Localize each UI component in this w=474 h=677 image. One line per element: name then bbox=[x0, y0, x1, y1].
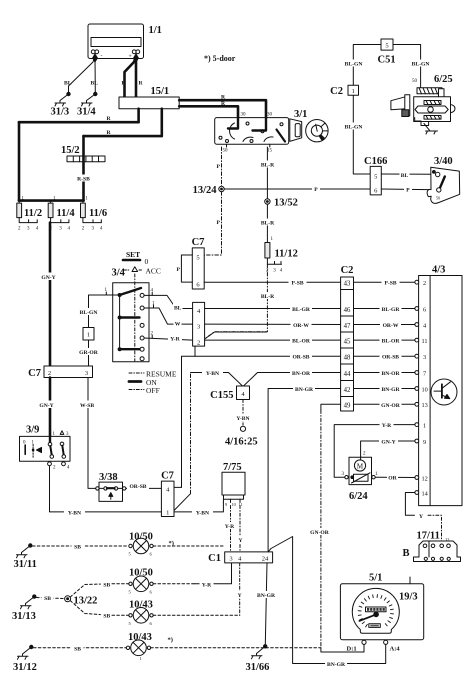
off-page symbol bbox=[240, 426, 245, 431]
pin tick 1 bbox=[153, 305, 155, 308]
wire P-SB from C7 pin 6 to C2 pin 43 bbox=[204, 281, 340, 283]
wire stub above 19/3 bbox=[409, 577, 411, 584]
wire label P-SB bbox=[289, 279, 307, 287]
svg-text:C2: C2 bbox=[341, 265, 354, 276]
svg-text:OR-W: OR-W bbox=[383, 323, 399, 329]
pin 4 tick bbox=[151, 292, 153, 295]
legend SET / 0 bbox=[123, 250, 149, 266]
wire OR-SB C2 48 to 4/3 pin 3 bbox=[354, 355, 415, 357]
svg-text:ACC: ACC bbox=[146, 267, 161, 276]
wire label OR-SB bbox=[290, 353, 312, 361]
wire P from C166 pin 6 to switch 3/40 bbox=[381, 188, 436, 191]
svg-text:SET: SET bbox=[126, 250, 140, 259]
wire label SB bbox=[101, 612, 113, 620]
wire battery minus to ground 31/4 (BL) bbox=[94, 56, 96, 93]
svg-text:BL-R: BL-R bbox=[261, 221, 275, 227]
wire dashed node down to lamp row 3 bbox=[70, 601, 104, 615]
svg-text:4/3: 4/3 bbox=[432, 265, 445, 276]
svg-text:10: 10 bbox=[422, 386, 428, 393]
svg-text:+: + bbox=[129, 54, 132, 60]
svg-text:0: 0 bbox=[145, 257, 149, 266]
svg-text:OR-SB: OR-SB bbox=[382, 355, 399, 361]
svg-text:19/3: 19/3 bbox=[399, 592, 418, 603]
svg-text:1: 1 bbox=[166, 509, 169, 516]
wire fuse supply bus bbox=[19, 199, 84, 202]
wire label W bbox=[174, 320, 182, 328]
wire dashed lamp row 2 right bbox=[153, 583, 194, 585]
svg-text:BL-OR: BL-OR bbox=[382, 339, 401, 345]
connector C1 bbox=[225, 552, 273, 563]
svg-text:BN-OR: BN-OR bbox=[381, 371, 400, 377]
wire P from node 13/24 right to C166 pin 6 bbox=[224, 188, 370, 190]
svg-text:31/3: 31/3 bbox=[51, 107, 70, 118]
svg-text:BL-GN: BL-GN bbox=[412, 62, 430, 68]
svg-text:9: 9 bbox=[225, 502, 227, 507]
fuse box 15/1 bbox=[119, 97, 179, 109]
wire label OR-SB bbox=[380, 353, 402, 361]
svg-text:14: 14 bbox=[422, 490, 429, 497]
wire dashed to lamp 10/43 bbox=[112, 614, 129, 616]
6/24 pin 1 bbox=[372, 476, 375, 479]
svg-text:2: 2 bbox=[197, 339, 200, 346]
4/3 pin 12 bbox=[415, 476, 419, 480]
wire 15/1 to 15/2 drop (R) lower bbox=[84, 109, 162, 136]
wire Y dashed continuation bbox=[428, 515, 442, 541]
svg-text:2: 2 bbox=[423, 280, 426, 287]
wire BL-OR from connector pin 2 to C2 pin 45 bbox=[205, 339, 341, 341]
svg-text:43: 43 bbox=[344, 281, 351, 288]
svg-text:50: 50 bbox=[436, 196, 440, 201]
wire BL-R dashed from fuse 11/12 to cruise switch wire bbox=[205, 264, 268, 339]
wire Y dashed from C1 pin 4 down to row 3 bbox=[239, 563, 241, 615]
wire Y-R to C1 pin 3 bbox=[194, 563, 232, 584]
wire R-SB through 15/2 down to fuse bus bbox=[82, 136, 85, 201]
svg-text:C51: C51 bbox=[378, 55, 396, 66]
wire label OR-W bbox=[380, 321, 401, 329]
svg-text:5: 5 bbox=[374, 174, 377, 181]
wire W-SB from C7 pin 3 down to 3/38 bbox=[88, 378, 96, 489]
wire C51 left branch to connector C2 pin 1 (BL-GN) bbox=[353, 45, 381, 86]
svg-text:GN-OR: GN-OR bbox=[310, 530, 330, 536]
svg-text:3: 3 bbox=[229, 555, 232, 562]
wire label BL-OR bbox=[290, 337, 312, 345]
svg-text:BN-OR: BN-OR bbox=[292, 371, 311, 377]
wire P dashed from node 13/24 down to C7 pin 5 bbox=[204, 192, 221, 255]
svg-text:30: 30 bbox=[241, 113, 247, 118]
wire GN-OR C2 49 to 4/3 pin 13 bbox=[354, 403, 415, 405]
wire Y from 4/3 pin 14 to relay 17/11 bbox=[405, 493, 414, 516]
svg-text:SB: SB bbox=[74, 646, 81, 652]
wire BN-GR from C1 pin 24 riser to C2 pin 42 bbox=[268, 389, 341, 552]
fuse 11/12 bbox=[265, 243, 270, 259]
wire GN-Y from 4/3 pin 9 to pump 6/24 pin 2 bbox=[361, 441, 415, 456]
svg-text:31/12: 31/12 bbox=[13, 662, 37, 673]
svg-text:44: 44 bbox=[344, 371, 351, 378]
legend ACC bbox=[124, 267, 161, 276]
wire label OR-SB bbox=[127, 482, 149, 490]
svg-text:17/11: 17/11 bbox=[417, 531, 440, 542]
wire label GN-Y bbox=[39, 273, 58, 282]
wire Y-R from 4/3 pin 1 to pump 6/24 pin 3 bbox=[334, 425, 415, 478]
svg-text:13/22: 13/22 bbox=[74, 596, 98, 607]
wire GN-OR from C2 pin 49 down to instrument bbox=[321, 404, 341, 410]
svg-text:7: 7 bbox=[423, 370, 426, 377]
svg-text:BL-GR: BL-GR bbox=[382, 307, 401, 313]
wire BN-GR C2 42 to 4/3 pin 10 bbox=[354, 388, 415, 390]
svg-text:13/52: 13/52 bbox=[274, 198, 298, 209]
4/3 pin 1 bbox=[415, 423, 419, 427]
svg-text:P-SB: P-SB bbox=[291, 281, 303, 287]
svg-text:50: 50 bbox=[223, 149, 229, 154]
wire label SB bbox=[72, 543, 84, 551]
ground 31/4 bbox=[82, 92, 98, 106]
wire 15/1 to ignition 3/1 terminal 30 lower (R) bbox=[179, 106, 238, 117]
wire C1 pin 24 down to ground 31/66 bbox=[265, 563, 267, 645]
fuse 11/6 output stub pins 2 3 4 bbox=[82, 218, 103, 232]
svg-text:BN-GR: BN-GR bbox=[295, 387, 314, 393]
cruise control module 4/3 bbox=[419, 276, 462, 506]
wire BL from C166 pin 5 to switch 3/40 bbox=[381, 173, 435, 175]
4/3 pin 3 bbox=[415, 354, 419, 358]
pin 4 bottom circle bbox=[62, 462, 66, 466]
svg-text:15/2: 15/2 bbox=[61, 145, 80, 156]
svg-text:3: 3 bbox=[197, 324, 200, 331]
wire label Y-R bbox=[200, 580, 214, 588]
wire dashed to lamp 10/50 row 2 bbox=[112, 583, 129, 585]
node 13/24 bbox=[219, 186, 224, 191]
wire label BN-GR bbox=[380, 385, 402, 393]
wire C155 to C2 pin 44 (BN-OR) bbox=[244, 373, 341, 387]
wire label BL-GN bbox=[342, 123, 365, 131]
wire jumper C7 pin 5 to pin 6 (P) bbox=[181, 255, 192, 282]
svg-text:11/2: 11/2 bbox=[24, 208, 42, 219]
svg-text:W: W bbox=[175, 321, 181, 327]
svg-text:12: 12 bbox=[422, 475, 428, 482]
svg-text:B: B bbox=[402, 548, 409, 559]
wire C51 right branch to starter 6/25 (BL-GN) bbox=[393, 45, 421, 88]
wire Y-BN dashed riser bbox=[190, 373, 192, 494]
pin 50 tick bbox=[226, 144, 228, 147]
svg-text:Y-BN: Y-BN bbox=[196, 510, 209, 516]
pin 1 tick bbox=[105, 292, 107, 295]
ground 31/3 bbox=[55, 92, 70, 106]
svg-text:C7: C7 bbox=[28, 368, 41, 379]
wire label Y bbox=[236, 591, 244, 599]
pin 2 bottom circle bbox=[48, 462, 52, 466]
svg-text:13/24: 13/24 bbox=[193, 185, 218, 196]
wire dashed lamp row 3 to C1 pin 4 drop bbox=[153, 614, 240, 616]
svg-text:11/6: 11/6 bbox=[89, 208, 107, 219]
wire label Y-BN bbox=[233, 414, 254, 422]
svg-text:13: 13 bbox=[422, 402, 428, 409]
ignition key barrel bbox=[290, 119, 328, 142]
ground 31/11 bbox=[17, 544, 32, 558]
svg-text:Y-R: Y-R bbox=[382, 423, 392, 429]
clutch switch 3/38 bbox=[96, 482, 126, 501]
wire label P-SB bbox=[382, 279, 400, 287]
svg-text:GN-Y: GN-Y bbox=[381, 440, 395, 446]
svg-text:5: 5 bbox=[385, 43, 388, 50]
wire left vertical R to fuse bus bbox=[18, 122, 21, 200]
svg-text:BL: BL bbox=[91, 81, 99, 87]
wire OR-W from connector pin 3 to C2 pin 47 bbox=[205, 323, 341, 325]
4/3 pin 11 bbox=[415, 338, 419, 342]
svg-text:R-SB: R-SB bbox=[77, 177, 90, 183]
svg-text:10: 10 bbox=[232, 502, 236, 507]
svg-text:31/66: 31/66 bbox=[246, 662, 270, 673]
svg-text:BL: BL bbox=[401, 173, 409, 179]
svg-text:OFF: OFF bbox=[146, 386, 160, 395]
svg-text:BL-GN: BL-GN bbox=[80, 310, 98, 316]
wire OR-SB from C7 pin 4 riser to C2 pin 48 bbox=[182, 356, 341, 487]
lamp 10/50 (row 2) bbox=[129, 576, 154, 595]
legend RESUME bbox=[129, 370, 177, 379]
4/3 pin 14 bbox=[415, 491, 419, 495]
svg-text:W-SB: W-SB bbox=[80, 403, 94, 409]
fuse 11/4 bbox=[48, 203, 53, 218]
fuse 11/2 output stub pins 2 3 4 bbox=[18, 218, 39, 232]
wire SB dashed from 31/13 to node 13/22 bbox=[37, 598, 65, 599]
svg-text:1: 1 bbox=[140, 656, 142, 661]
legend ON bbox=[129, 378, 157, 387]
wire label Y bbox=[237, 536, 245, 544]
fuse 11/4 pin 1 bbox=[50, 201, 52, 204]
connector at 3/4 (pins 4,3,2) bbox=[193, 302, 205, 346]
svg-text:11: 11 bbox=[422, 338, 428, 345]
wire BL-R from ignition pin 15 down to node 13/52 bbox=[266, 147, 268, 199]
wire diagonal from C7 pin 1 up to Y-BN dashed riser bbox=[174, 494, 191, 511]
svg-text:BL-GN: BL-GN bbox=[345, 62, 363, 68]
svg-text:1: 1 bbox=[423, 422, 426, 429]
wire 3/4 pin 1b to connector pin 3 (W) bbox=[144, 308, 193, 324]
4/3 pin 7 bbox=[415, 371, 419, 375]
svg-text:P: P bbox=[177, 267, 181, 273]
svg-text:P-SB: P-SB bbox=[384, 281, 396, 287]
brake switch 3/40 bbox=[427, 167, 460, 203]
svg-text:BL-GN: BL-GN bbox=[345, 125, 363, 131]
svg-text:1/1: 1/1 bbox=[149, 25, 162, 36]
svg-text:GN-Y: GN-Y bbox=[39, 403, 53, 409]
fuse 11/2 pin 1 bbox=[18, 201, 20, 204]
4/3 pin 10 bbox=[415, 387, 419, 391]
battery 1/1 bbox=[88, 24, 144, 62]
lamp 10/50 (row 1) bbox=[129, 538, 154, 556]
svg-text:3/38: 3/38 bbox=[99, 472, 118, 483]
wire P-SB C2 43 to 4/3 pin 2 bbox=[354, 281, 415, 283]
4/3 pin 2 bbox=[415, 280, 419, 284]
wire GR-OR from box 1 to C7 pin 3 bbox=[88, 340, 90, 366]
wire connector pin 1 tick to OR-SB line bbox=[194, 346, 196, 356]
wire BN-GR label bbox=[293, 385, 315, 393]
svg-text:C2: C2 bbox=[330, 86, 343, 97]
pin 15 tick bbox=[269, 144, 271, 147]
svg-text:6/25: 6/25 bbox=[434, 74, 453, 85]
svg-text:P: P bbox=[217, 164, 221, 170]
svg-text:*) 5-door: *) 5-door bbox=[204, 54, 236, 63]
connector C2 strip bbox=[341, 277, 354, 411]
connector C2 (pin 1) bbox=[348, 85, 359, 95]
pin 2 tick bbox=[151, 335, 153, 338]
wire battery minus to ground 31/3 (BL) bbox=[69, 56, 96, 93]
connector C7 (pins 4,1) bbox=[161, 481, 174, 516]
svg-text:SB: SB bbox=[103, 613, 110, 619]
svg-text:1: 1 bbox=[352, 88, 355, 95]
4/3 pin 9 bbox=[415, 439, 419, 443]
svg-text:50: 50 bbox=[412, 79, 418, 84]
wire label Y-BN bbox=[192, 508, 213, 516]
svg-text:P: P bbox=[217, 220, 221, 226]
svg-text:Y-BN: Y-BN bbox=[68, 510, 81, 516]
wire BL-OR C2 45 to 4/3 pin 11 bbox=[354, 339, 415, 341]
svg-text:5/1: 5/1 bbox=[369, 573, 382, 584]
wire label BL-GR bbox=[380, 305, 402, 313]
svg-text:*): *) bbox=[168, 637, 173, 644]
connector C155 bbox=[237, 386, 250, 400]
wire OR-W C2 47 to 4/3 pin 4 bbox=[354, 324, 415, 326]
svg-text:BN-GR: BN-GR bbox=[381, 387, 400, 393]
svg-text:BL-GR: BL-GR bbox=[292, 307, 311, 313]
svg-text:BN-GR: BN-GR bbox=[257, 593, 276, 599]
svg-text:46: 46 bbox=[344, 307, 351, 314]
wire dashed lamp row 4 to GN-OR junction bbox=[151, 647, 321, 649]
svg-text:3: 3 bbox=[85, 370, 88, 377]
ground 31/12 bbox=[18, 645, 34, 659]
wire 15/1 to left bus (R) upper bbox=[19, 109, 139, 123]
wire label BN-GR bbox=[325, 660, 347, 668]
wire label GN-Y bbox=[37, 401, 56, 410]
svg-text:7/75: 7/75 bbox=[223, 462, 242, 473]
wire Y-BN from 3/9 pin 2 to C7 pin 1 bbox=[50, 466, 162, 512]
wire GN-Y from C7 pin 2 down to stop switch 3/9 bbox=[49, 378, 52, 437]
svg-text:OR-SB: OR-SB bbox=[129, 484, 146, 490]
lamp 10/43 (row 4) bbox=[126, 640, 150, 661]
svg-text:A:4: A:4 bbox=[390, 646, 401, 653]
svg-text:SB: SB bbox=[44, 596, 51, 602]
svg-text:C7: C7 bbox=[161, 471, 174, 482]
svg-text:GR-OR: GR-OR bbox=[79, 350, 99, 356]
wire label BL-R bbox=[259, 219, 277, 227]
wire label Y-BN bbox=[202, 369, 223, 377]
svg-text:Y-BN: Y-BN bbox=[236, 416, 249, 422]
wire Y dashed from 7/75 to C1 pin 4 bbox=[239, 506, 241, 552]
svg-text:BL-R: BL-R bbox=[261, 294, 275, 300]
wire connector pin 2 diagonal up to BL-R join bbox=[205, 332, 267, 339]
wire 3/4 pin 2 to connector pin 2 (Y-R) bbox=[144, 338, 193, 340]
wire C1 pin 24 diagonal to instrument feed bbox=[268, 537, 386, 664]
pin 3 top triangle bbox=[60, 431, 64, 435]
wire Y-BN to connector C155 bbox=[191, 373, 243, 387]
svg-text:Y: Y bbox=[419, 514, 423, 520]
wire battery plus to 15/1 (R, right) bbox=[135, 56, 138, 97]
wire BL-R from node 13/52 to fuse 11/12 bbox=[266, 204, 268, 242]
svg-text:2: 2 bbox=[48, 370, 51, 377]
wire label R-SB bbox=[75, 175, 92, 183]
wire label Y-R bbox=[168, 335, 182, 343]
svg-text:48: 48 bbox=[344, 355, 351, 362]
wire label BL-R bbox=[259, 161, 277, 169]
wire GN-Y from fuse 11/4 down to C7 pin 2 bbox=[49, 223, 52, 366]
wire SB dashed from 31/11 to lamp 10/50 bbox=[33, 545, 129, 547]
svg-text:C166: C166 bbox=[364, 156, 387, 167]
wire label BL-GN bbox=[409, 60, 432, 68]
wire label GN-Y bbox=[379, 438, 398, 446]
svg-text:BL-OR: BL-OR bbox=[292, 339, 311, 345]
wire label SB bbox=[101, 581, 113, 589]
connector C51 bbox=[381, 39, 393, 50]
svg-text:OR-SB: OR-SB bbox=[292, 355, 309, 361]
svg-text:11/12: 11/12 bbox=[275, 249, 298, 260]
svg-text:M: M bbox=[357, 462, 364, 470]
svg-text:3: 3 bbox=[423, 354, 426, 361]
wire label Y-R bbox=[380, 421, 394, 429]
wire label P bbox=[404, 186, 412, 194]
svg-text:42: 42 bbox=[344, 387, 351, 394]
wire BL-GN from C2 pin 1 down to C166 pin 5 bbox=[353, 95, 370, 174]
svg-text:9: 9 bbox=[423, 439, 426, 446]
svg-text:D:1: D:1 bbox=[347, 646, 357, 653]
fuse 11/6 pin 1 bbox=[82, 201, 84, 204]
wire label BL-OR bbox=[380, 337, 402, 345]
svg-text:Y: Y bbox=[238, 593, 242, 599]
svg-text:3/40: 3/40 bbox=[434, 156, 453, 167]
svg-text:45: 45 bbox=[344, 338, 351, 345]
svg-text:1: 1 bbox=[87, 332, 90, 339]
svg-text:3/9: 3/9 bbox=[26, 425, 39, 436]
svg-text:11: 11 bbox=[239, 502, 243, 507]
svg-text:BL-R: BL-R bbox=[261, 163, 275, 169]
wire label BN-GR bbox=[255, 591, 277, 599]
wire label Y-R bbox=[223, 522, 237, 530]
svg-text:6/24: 6/24 bbox=[349, 491, 368, 502]
connector box 1 bbox=[83, 328, 94, 341]
svg-text:15/1: 15/1 bbox=[151, 86, 170, 97]
svg-text:24: 24 bbox=[262, 555, 269, 562]
vacuum regulator 7/75 bbox=[222, 472, 245, 507]
svg-text:Y-R: Y-R bbox=[202, 582, 212, 588]
wire 15/1 to ignition 3/1 terminal 30 upper (R) bbox=[179, 100, 266, 117]
wire label BL-GR bbox=[290, 305, 312, 313]
connector C7 (pins 2,3) bbox=[44, 366, 93, 378]
svg-text:C1: C1 bbox=[208, 553, 221, 564]
svg-text:Y: Y bbox=[238, 538, 242, 544]
svg-text:-: - bbox=[101, 53, 103, 59]
cruise switch 3/4 bbox=[113, 274, 149, 362]
svg-text:31/11: 31/11 bbox=[14, 559, 37, 570]
svg-text:3/1: 3/1 bbox=[294, 109, 307, 120]
wire label BL-GN bbox=[342, 60, 365, 68]
wire Y-R dashed from 7/75 to C1 pin 3 bbox=[230, 506, 232, 552]
wire OR-SB from 3/38 to C7 pin 4 bbox=[126, 487, 161, 489]
starter motor 6/25 bbox=[391, 88, 455, 131]
fuse 11/2 bbox=[17, 203, 22, 218]
wire OR from 4/3 pin 12 to pump 6/24 pin 1 bbox=[375, 476, 415, 478]
wire battery plus to 15/1 (R, left) bbox=[125, 56, 137, 97]
wire label SB bbox=[42, 594, 54, 602]
wire label GN-OR bbox=[308, 528, 331, 536]
wire BL-GR C2 46 to 4/3 pin 6 bbox=[354, 308, 415, 310]
svg-text:SB: SB bbox=[74, 545, 81, 551]
ignition switch 3/1 bbox=[215, 118, 289, 145]
4/3 pin 4 bbox=[415, 323, 419, 327]
wire BL-GR from connector pin 4 to C2 pin 46 bbox=[205, 308, 341, 310]
vacuum pump 6/24 bbox=[349, 456, 372, 484]
wire Y-BN dashed below C155 bbox=[242, 400, 244, 426]
wire label BL bbox=[400, 171, 410, 179]
wire label GR-OR bbox=[77, 348, 101, 356]
svg-text:Y-R: Y-R bbox=[170, 337, 180, 343]
ground of starter 6/25 bbox=[426, 131, 438, 134]
svg-text:BL: BL bbox=[64, 81, 72, 87]
